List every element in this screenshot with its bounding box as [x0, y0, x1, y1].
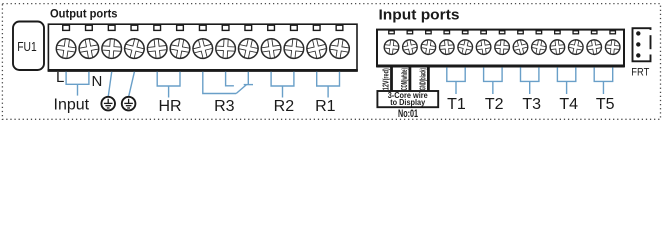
svg-text:Input: Input	[54, 97, 90, 114]
svg-text:R3: R3	[214, 98, 235, 115]
svg-text:FU1: FU1	[17, 39, 37, 54]
svg-text:COM(white): COM(white)	[399, 68, 409, 90]
svg-text:T3: T3	[522, 96, 541, 113]
svg-text:R1: R1	[315, 98, 336, 115]
svg-text:to Display: to Display	[390, 98, 426, 107]
svg-text:GND(black): GND(black)	[418, 68, 428, 90]
svg-text:Output ports: Output ports	[50, 6, 118, 20]
svg-text:HR: HR	[158, 98, 181, 115]
svg-text:Input ports: Input ports	[379, 7, 460, 23]
svg-text:L: L	[56, 69, 64, 86]
svg-text:FRT: FRT	[631, 67, 649, 79]
svg-text:12V(red): 12V(red)	[381, 68, 391, 90]
svg-text:T2: T2	[485, 96, 504, 113]
svg-text:T1: T1	[447, 96, 466, 113]
svg-text:T4: T4	[559, 96, 578, 113]
svg-text:T5: T5	[596, 96, 615, 113]
svg-text:No:01: No:01	[398, 108, 418, 120]
svg-text:R2: R2	[274, 98, 295, 115]
svg-text:N: N	[92, 73, 103, 90]
